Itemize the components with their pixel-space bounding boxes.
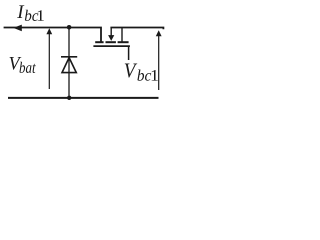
wire: top rail right segment [110, 28, 163, 30]
wire: bottom rail [8, 97, 159, 99]
transistor M1 (MOSFET, enhancement-style 3-segment channel) [93, 28, 129, 61]
wire: top rail left segment with corner down into M1 source lead [4, 28, 101, 43]
voltage arrow V_bc1 (points up at top rail) [156, 30, 162, 90]
M1 channel segment left [95, 41, 103, 43]
wire: diode branch vertical (top dot to bottom rail) [68, 28, 70, 98]
M1 channel segment middle [106, 41, 116, 43]
M1 source lead [110, 28, 112, 36]
node A: junction dot on top rail (diode tap) [67, 25, 72, 30]
diode D1 (cathode bar up, triangle apex up) [61, 57, 77, 73]
label V_bat [10, 57, 36, 73]
M1 gate line [93, 45, 129, 47]
M1 channel segment right [118, 41, 129, 43]
label V_bc1 [125, 64, 158, 81]
node B: junction dot on bottom rail [67, 96, 71, 100]
M1 drain lead [121, 28, 123, 43]
M1 gate lead down [128, 46, 130, 60]
current arrow I_bc1 arrowhead (points left) [13, 25, 21, 32]
M1 body arrowhead (points down into channel) [108, 35, 114, 41]
voltage arrow V_bat (points up at top rail) [46, 28, 52, 89]
label I_bc1 [17, 5, 44, 21]
